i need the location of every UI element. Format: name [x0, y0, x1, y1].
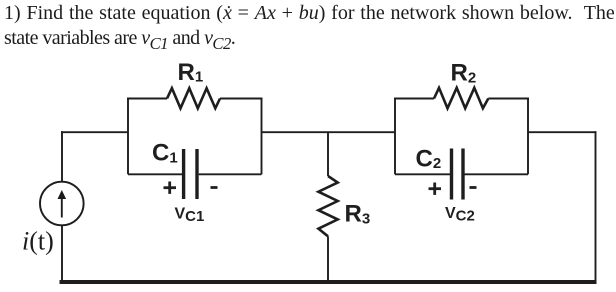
current source I arrow	[58, 190, 67, 218]
resistor R3 branch: top wire	[327, 132, 329, 176]
label R1	[178, 59, 204, 86]
label R2	[451, 60, 477, 87]
capacitor C2 plates	[452, 149, 464, 200]
label VC1	[175, 206, 205, 226]
right box: left edge wire	[394, 98, 396, 174]
label minus sign of C1	[211, 186, 218, 189]
current source I vertical wire bottom	[61, 225, 63, 283]
right box: bottom-left wire to C2	[395, 173, 450, 175]
label VC2	[445, 205, 475, 225]
svg-text:R2: R2	[451, 60, 477, 87]
current source I vertical wire top	[61, 131, 63, 182]
left box: bottom-left wire to C1	[128, 173, 182, 175]
svg-text:i(t): i(t)	[22, 227, 54, 256]
label minus sign of C2	[470, 186, 477, 189]
resistor R2	[434, 88, 488, 109]
wire: node B horizontal segment between boxes	[262, 131, 396, 133]
resistor R3	[318, 176, 337, 236]
right box: bottom-right wire from C2	[465, 173, 529, 175]
label C1	[152, 140, 178, 167]
svg-text:C2: C2	[416, 145, 442, 172]
wire: node A horizontal segment from source to left box	[61, 131, 128, 133]
label plus sign of C2	[429, 183, 442, 195]
current source I circle	[40, 182, 84, 226]
left box: left edge wire	[127, 98, 129, 174]
svg-text:VC1: VC1	[175, 206, 205, 226]
wire: bottom ground return (thick)	[60, 280, 597, 284]
svg-text:R1: R1	[178, 59, 204, 86]
capacitor C1 plates	[184, 149, 197, 199]
label R3	[345, 201, 371, 228]
right box: right edge wire	[527, 98, 529, 174]
left box: top-right wire from R1	[220, 98, 263, 100]
wire: right vertical edge	[595, 131, 597, 283]
svg-text:R3: R3	[345, 201, 371, 228]
left box: bottom-right wire from C1	[199, 173, 262, 175]
resistor R3 branch: bottom wire	[327, 236, 329, 283]
left box: right edge wire	[261, 98, 263, 174]
wire: node C horizontal segment to right edge	[528, 131, 597, 133]
left box: top-left wire to R1	[127, 98, 167, 100]
label i(t) of current source	[22, 227, 54, 256]
resistor R1	[167, 88, 220, 108]
svg-text:C1: C1	[152, 140, 178, 167]
label C2	[416, 145, 442, 172]
right box: top-right wire from R2	[488, 98, 529, 100]
svg-text:VC2: VC2	[445, 205, 475, 225]
label plus sign of C1	[164, 182, 177, 194]
problem statement text	[4, 1, 616, 56]
right box: top-left wire to R2	[394, 98, 434, 100]
